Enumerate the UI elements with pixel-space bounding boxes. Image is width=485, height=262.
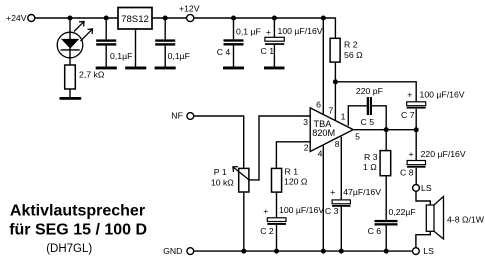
svg-text:78S12: 78S12 [121,14,149,25]
svg-text:1: 1 [341,111,346,121]
svg-text:56 Ω: 56 Ω [344,50,363,60]
svg-text:GND: GND [163,246,182,256]
svg-text:4-8 Ω/1W: 4-8 Ω/1W [447,215,485,225]
svg-text:7: 7 [328,105,333,115]
svg-text:100 µF/16V: 100 µF/16V [420,90,465,100]
svg-text:LS: LS [423,246,434,256]
svg-text:0,1 µF: 0,1 µF [236,27,261,37]
svg-text:C 4: C 4 [217,47,231,57]
svg-text:C 7: C 7 [401,110,415,120]
svg-text:+: + [266,27,271,37]
svg-text:(DH7GL): (DH7GL) [46,243,92,255]
svg-text:R 2: R 2 [344,40,358,50]
svg-text:für SEG 15 / 100 D: für SEG 15 / 100 D [9,222,147,239]
svg-text:2: 2 [304,143,309,153]
svg-text:100 µF/16V: 100 µF/16V [278,26,323,36]
svg-text:R 1: R 1 [285,167,299,177]
svg-text:C 8: C 8 [400,168,414,178]
svg-text:0,22µF: 0,22µF [389,207,416,217]
svg-text:C 3: C 3 [325,206,339,216]
svg-text:0,1µF: 0,1µF [168,51,190,61]
svg-text:R 3: R 3 [364,152,378,162]
svg-text:C 1: C 1 [261,46,275,56]
svg-text:+12V: +12V [179,3,200,13]
svg-text:+: + [408,149,413,159]
svg-text:220 µF/16V: 220 µF/16V [421,149,466,159]
svg-text:LS: LS [421,183,432,193]
svg-text:+24V: +24V [6,13,27,23]
svg-text:3: 3 [303,117,308,127]
svg-text:10 kΩ: 10 kΩ [211,177,234,187]
svg-text:Aktivlautsprecher: Aktivlautsprecher [10,203,145,220]
svg-text:220 pF: 220 pF [356,86,383,96]
svg-text:C 5: C 5 [361,117,375,127]
svg-text:C 2: C 2 [260,226,274,236]
svg-text:47µF/16V: 47µF/16V [343,187,381,197]
svg-text:+: + [330,187,335,197]
svg-text:5: 5 [355,132,360,142]
svg-text:2,7 kΩ: 2,7 kΩ [79,70,105,80]
svg-text:100 µF/16V: 100 µF/16V [279,205,324,215]
svg-text:1 Ω: 1 Ω [363,162,377,172]
svg-text:6: 6 [316,100,321,110]
svg-text:4: 4 [318,148,323,158]
svg-text:C 6: C 6 [368,226,382,236]
svg-text:+: + [263,206,268,216]
svg-text:NF: NF [171,111,183,121]
svg-text:+: + [407,90,412,100]
svg-text:820M: 820M [312,128,335,138]
svg-text:8: 8 [335,139,340,149]
svg-text:0,1µF: 0,1µF [110,51,132,61]
svg-text:120 Ω: 120 Ω [284,177,308,187]
svg-text:P 1: P 1 [214,167,227,177]
